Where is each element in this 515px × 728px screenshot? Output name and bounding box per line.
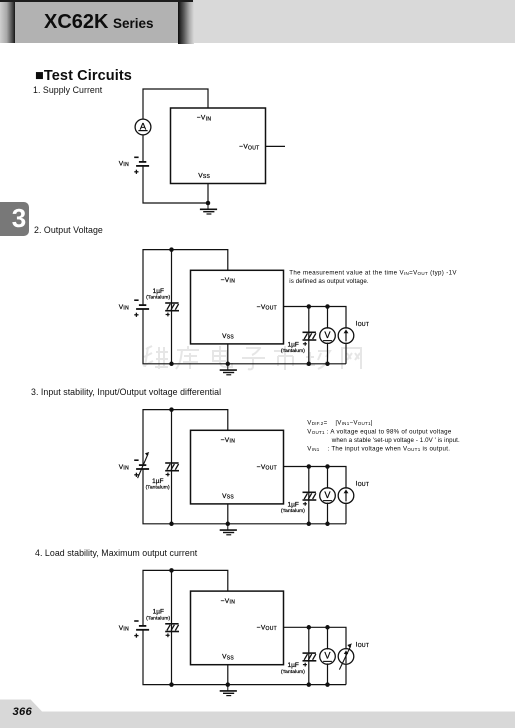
ground symbol xyxy=(200,203,217,214)
wire voltmeter drop xyxy=(327,627,329,649)
watermark char 7 xyxy=(341,348,362,369)
svg-text:−VIN​: −VIN​ xyxy=(197,115,212,123)
watermark char 1 xyxy=(143,346,168,369)
wire output cap drop xyxy=(308,467,310,524)
battery VIN xyxy=(134,157,149,174)
svg-text:VDIF.2​= |VIN1​−VOUT1​|: VDIF.2​= |VIN1​−VOUT1​| xyxy=(307,420,373,427)
node bottom junctions xyxy=(169,362,174,367)
output capacitor 1uF tantalum xyxy=(303,492,317,505)
watermark char 5 xyxy=(274,346,297,370)
current source IOUT xyxy=(338,643,354,669)
svg-text:IOUT​: IOUT​ xyxy=(356,641,370,649)
current source IOUT xyxy=(338,488,354,504)
svg-text:1µF: 1µF xyxy=(153,288,164,295)
wire battery to bottom rail xyxy=(143,166,208,203)
svg-text:VSS​: VSS​ xyxy=(222,493,234,501)
current source IOUT xyxy=(338,328,354,344)
node top junction xyxy=(169,247,174,252)
svg-text:V: V xyxy=(324,651,331,661)
caption 4 xyxy=(35,549,197,558)
svg-text:(Tantalum): (Tantalum) xyxy=(146,485,170,491)
svg-text:−VOUT​: −VOUT​ xyxy=(257,464,277,472)
input capacitor 1uF tantalum xyxy=(165,463,179,476)
node output junctions xyxy=(307,304,312,309)
circuit 3: Input stability xyxy=(143,410,346,524)
svg-text:The measurement value at the t: The measurement value at the time VIN​=V… xyxy=(289,270,457,277)
footer bar xyxy=(0,695,515,728)
regulator IC box xyxy=(191,430,284,504)
wire current source bottom xyxy=(345,503,347,524)
svg-text:(Tantalum): (Tantalum) xyxy=(146,615,170,621)
svg-text:−VOUT​: −VOUT​ xyxy=(239,144,259,152)
ground symbol xyxy=(220,524,237,535)
caption 3 xyxy=(31,388,221,397)
wire IC VSS pin to ground node xyxy=(207,184,209,204)
voltmeter V xyxy=(320,328,336,344)
wire ammeter to battery xyxy=(142,135,144,162)
svg-text:IOUT​: IOUT​ xyxy=(356,481,370,489)
wire input cap rail xyxy=(171,250,173,364)
node bottom junctions xyxy=(169,682,174,687)
wire VOUT open stub xyxy=(266,145,286,147)
wire bottom rail xyxy=(143,630,346,685)
svg-text:1µF: 1µF xyxy=(153,609,164,616)
svg-text:IOUT​: IOUT​ xyxy=(356,321,370,329)
svg-text:VSS​: VSS​ xyxy=(222,333,234,341)
svg-text:1µF: 1µF xyxy=(287,662,298,669)
wire current source bottom xyxy=(345,663,347,684)
node junction at ground xyxy=(206,201,211,206)
svg-text:(Tantalum): (Tantalum) xyxy=(281,669,305,675)
header top dark line xyxy=(0,0,193,2)
regulator IC box xyxy=(191,270,284,344)
svg-text:is defined as output voltage.: is defined as output voltage. xyxy=(289,278,369,285)
header right shadow xyxy=(178,0,194,44)
wire IC VSS pin to ground xyxy=(227,344,229,364)
circuit 4: Load stability xyxy=(143,570,346,684)
svg-text:VOUT1​ : A voltage equal to 98: VOUT1​ : A voltage equal to 98% of outpu… xyxy=(307,428,452,435)
svg-text:V: V xyxy=(324,330,331,340)
output capacitor 1uF tantalum xyxy=(303,653,317,666)
ground symbol xyxy=(220,685,237,696)
wire voltmeter drop xyxy=(327,467,329,489)
svg-text:−VOUT​: −VOUT​ xyxy=(257,304,277,312)
svg-text:(Tantalum): (Tantalum) xyxy=(281,508,305,514)
svg-text:VIN​: VIN​ xyxy=(119,625,129,633)
svg-text:−VIN​: −VIN​ xyxy=(221,437,236,445)
svg-text:(Tantalum): (Tantalum) xyxy=(281,348,305,354)
svg-text:when a stable 'set-up voltage: when a stable 'set-up voltage - 1.0V ' i… xyxy=(331,437,460,444)
watermark char 4 xyxy=(242,348,265,369)
wire top xyxy=(143,89,208,119)
ammeter A1 xyxy=(135,119,151,135)
svg-text:−VOUT​: −VOUT​ xyxy=(257,625,277,633)
svg-text:V: V xyxy=(324,490,331,500)
battery VIN xyxy=(134,621,149,638)
wire IC VSS pin to ground xyxy=(227,504,229,524)
header left edge gradient xyxy=(0,0,15,43)
svg-text:1µF: 1µF xyxy=(152,478,163,485)
chapter tab 3 xyxy=(0,202,29,236)
caption 1 xyxy=(33,86,102,95)
wire voltmeter drop xyxy=(327,307,329,329)
circuit 1: Supply Current xyxy=(143,89,208,119)
svg-text:−VIN​: −VIN​ xyxy=(221,598,236,606)
wire output cap drop xyxy=(308,627,310,684)
wire input cap rail xyxy=(171,410,173,524)
page number 366 xyxy=(13,706,33,718)
wire current source bottom xyxy=(345,343,347,364)
circuit 2: Output Voltage xyxy=(143,250,346,364)
section heading: Test Circuits xyxy=(35,68,132,84)
wire IC VSS pin to ground xyxy=(227,665,229,685)
regulator IC box xyxy=(191,591,284,665)
svg-text:1µF: 1µF xyxy=(287,501,298,508)
svg-text:VIN​: VIN​ xyxy=(119,160,129,168)
ground symbol xyxy=(220,364,237,375)
svg-text:1µF: 1µF xyxy=(287,341,298,348)
header title box xyxy=(15,0,178,43)
output capacitor 1uF tantalum xyxy=(303,332,317,345)
watermark char 3 xyxy=(213,346,232,367)
voltmeter V xyxy=(320,488,336,504)
wire bottom rail xyxy=(143,309,346,364)
svg-text:(Tantalum): (Tantalum) xyxy=(146,295,170,301)
svg-text:VIN1​ : The input voltage w: VIN1​ : The input voltage when VOUT1​ is… xyxy=(307,446,450,453)
svg-text:−VIN​: −VIN​ xyxy=(221,277,236,285)
node top junction xyxy=(169,407,174,412)
node output junctions xyxy=(307,464,312,469)
watermark char 6 xyxy=(306,351,330,369)
regulator IC box xyxy=(171,108,266,184)
wire output cap drop xyxy=(308,307,310,364)
svg-text:VSS​: VSS​ xyxy=(222,654,234,662)
wire top rail xyxy=(143,570,228,626)
wire top rail xyxy=(143,250,228,306)
wire bottom rail xyxy=(143,469,346,524)
node top junction xyxy=(169,568,174,573)
caption 2 xyxy=(34,226,103,235)
svg-text:VIN​: VIN​ xyxy=(119,464,129,472)
wire input cap rail xyxy=(171,570,173,684)
header band right part xyxy=(0,0,515,43)
wire VOUT rail xyxy=(284,307,347,329)
input capacitor 1uF tantalum xyxy=(165,624,179,637)
wire top rail xyxy=(143,410,228,466)
battery VIN xyxy=(134,452,149,478)
node output junctions xyxy=(307,625,312,630)
voltmeter V xyxy=(320,649,336,665)
wire VOUT rail xyxy=(284,627,347,649)
node bottom junctions xyxy=(169,522,174,527)
input capacitor 1uF tantalum xyxy=(165,303,179,316)
svg-text:VIN​: VIN​ xyxy=(119,304,129,312)
header title text xyxy=(44,11,154,34)
watermark char 2 xyxy=(176,346,199,369)
svg-text:VSS​: VSS​ xyxy=(198,173,210,181)
battery VIN xyxy=(134,300,149,317)
wire VOUT rail xyxy=(284,467,347,489)
